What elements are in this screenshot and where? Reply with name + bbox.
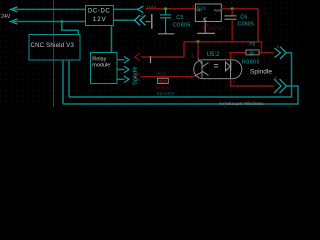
junction C5 bbox=[164, 7, 167, 10]
wire right return A bbox=[69, 53, 292, 97]
svg-text:2: 2 bbox=[277, 45, 279, 49]
sheet divider grey vertical line bbox=[53, 0, 55, 107]
wire branch down from junction bbox=[62, 22, 79, 35]
capacitor C6 bbox=[231, 9, 233, 16]
relay pin wire 1 bbox=[117, 59, 125, 61]
svg-text:R0805: R0805 bbox=[242, 60, 260, 66]
ground pin stem bbox=[204, 22, 206, 34]
wire down to opto pin4 bbox=[197, 42, 199, 59]
wire 24V- to DC-DC bbox=[11, 21, 86, 23]
port arrow red top bbox=[135, 53, 140, 60]
opto coupling marks bbox=[214, 65, 218, 68]
capacitor C5 bbox=[160, 9, 171, 34]
relay pin arrow 3 bbox=[124, 76, 129, 83]
svg-text:2k2: 2k2 bbox=[159, 79, 167, 84]
wire +12V rail bbox=[146, 8, 195, 10]
module DC-DC converter bbox=[86, 6, 114, 26]
port arrow 12V out bbox=[138, 6, 144, 12]
wire DC-DC to relay bbox=[111, 26, 113, 53]
wire 24V+ to DC-DC bbox=[11, 8, 86, 10]
svg-text:1k: 1k bbox=[249, 50, 255, 55]
opto transistor internals bbox=[194, 59, 208, 78]
svg-text:Vout: Vout bbox=[214, 9, 223, 13]
gnd pin glyph inside U1 bbox=[204, 17, 207, 21]
wire CNC pin down 2 bbox=[68, 60, 70, 97]
wire loop right side bbox=[257, 9, 259, 42]
svg-text:Relay: Relay bbox=[92, 56, 106, 62]
svg-text:C0805: C0805 bbox=[173, 22, 191, 28]
junction opto pin4 bbox=[196, 40, 199, 43]
svg-text:C5: C5 bbox=[176, 15, 183, 21]
regulator U: LM1117 box bbox=[195, 4, 221, 22]
relay pin wire 3 bbox=[117, 78, 125, 80]
grey port stub bbox=[146, 21, 151, 23]
riser rail to R5 line bbox=[261, 42, 263, 53]
wire Vout rail bbox=[221, 8, 258, 10]
relay pin wire 2 bbox=[117, 69, 125, 71]
wire DC-DC out bottom bbox=[113, 19, 134, 21]
wire CNC pin down 1 bbox=[62, 60, 64, 104]
svg-text:R5: R5 bbox=[249, 42, 255, 47]
svg-text:Активация Windows: Активация Windows bbox=[219, 101, 265, 107]
svg-text:Spindle: Spindle bbox=[250, 69, 272, 76]
opto diode bbox=[226, 60, 231, 79]
ground LM1117 bbox=[197, 32, 215, 34]
svg-text:Spindle: Spindle bbox=[132, 66, 138, 85]
svg-text:module: module bbox=[92, 63, 110, 69]
svg-text:C0805: C0805 bbox=[238, 21, 254, 27]
svg-text:12V: 12V bbox=[93, 17, 107, 23]
port arrow 24V top bbox=[11, 7, 18, 12]
svg-text:Spindle: Spindle bbox=[157, 92, 175, 96]
box CNC Shield V3 bbox=[29, 35, 80, 61]
svg-text:CNC Shield V3: CNC Shield V3 bbox=[31, 43, 75, 49]
relay pin arrow 1 bbox=[124, 56, 129, 63]
wire DC-DC out top bbox=[113, 8, 137, 10]
port chevron 1 bbox=[135, 15, 141, 25]
grey port bar on red wire 1 bbox=[150, 56, 152, 63]
svg-text:DC-DC: DC-DC bbox=[88, 9, 110, 15]
port arrow 24V bottom bbox=[11, 19, 18, 24]
svg-text:R10: R10 bbox=[157, 72, 166, 78]
junction C6 bbox=[231, 7, 234, 10]
wire left loop down bbox=[141, 42, 184, 57]
svg-text:Vin: Vin bbox=[196, 9, 201, 13]
grey port bar bbox=[151, 14, 153, 29]
wire opto pin1 to R5 bbox=[230, 53, 232, 60]
relay pin arrow 2 bbox=[124, 66, 129, 73]
svg-text:24V: 24V bbox=[1, 14, 11, 20]
wire to R10 bbox=[141, 76, 195, 78]
port chevrons spindle top bbox=[275, 48, 281, 57]
wire bottom B bbox=[63, 86, 298, 104]
ground C5 bbox=[158, 33, 175, 35]
box Relay module bbox=[91, 53, 118, 84]
junction on 24V- wire bbox=[60, 20, 63, 23]
opto body stadium bbox=[194, 60, 242, 79]
svg-text:R0805: R0805 bbox=[156, 85, 170, 91]
resistor R5 bbox=[229, 52, 274, 54]
port arrow red bottom bbox=[135, 73, 140, 80]
resistor R10 bbox=[158, 78, 169, 83]
svg-text:U5:2: U5:2 bbox=[207, 52, 220, 58]
wire opto pin2 to spindle bbox=[231, 79, 275, 86]
svg-text:C6: C6 bbox=[240, 15, 247, 21]
port chevron 2 bbox=[140, 15, 146, 25]
